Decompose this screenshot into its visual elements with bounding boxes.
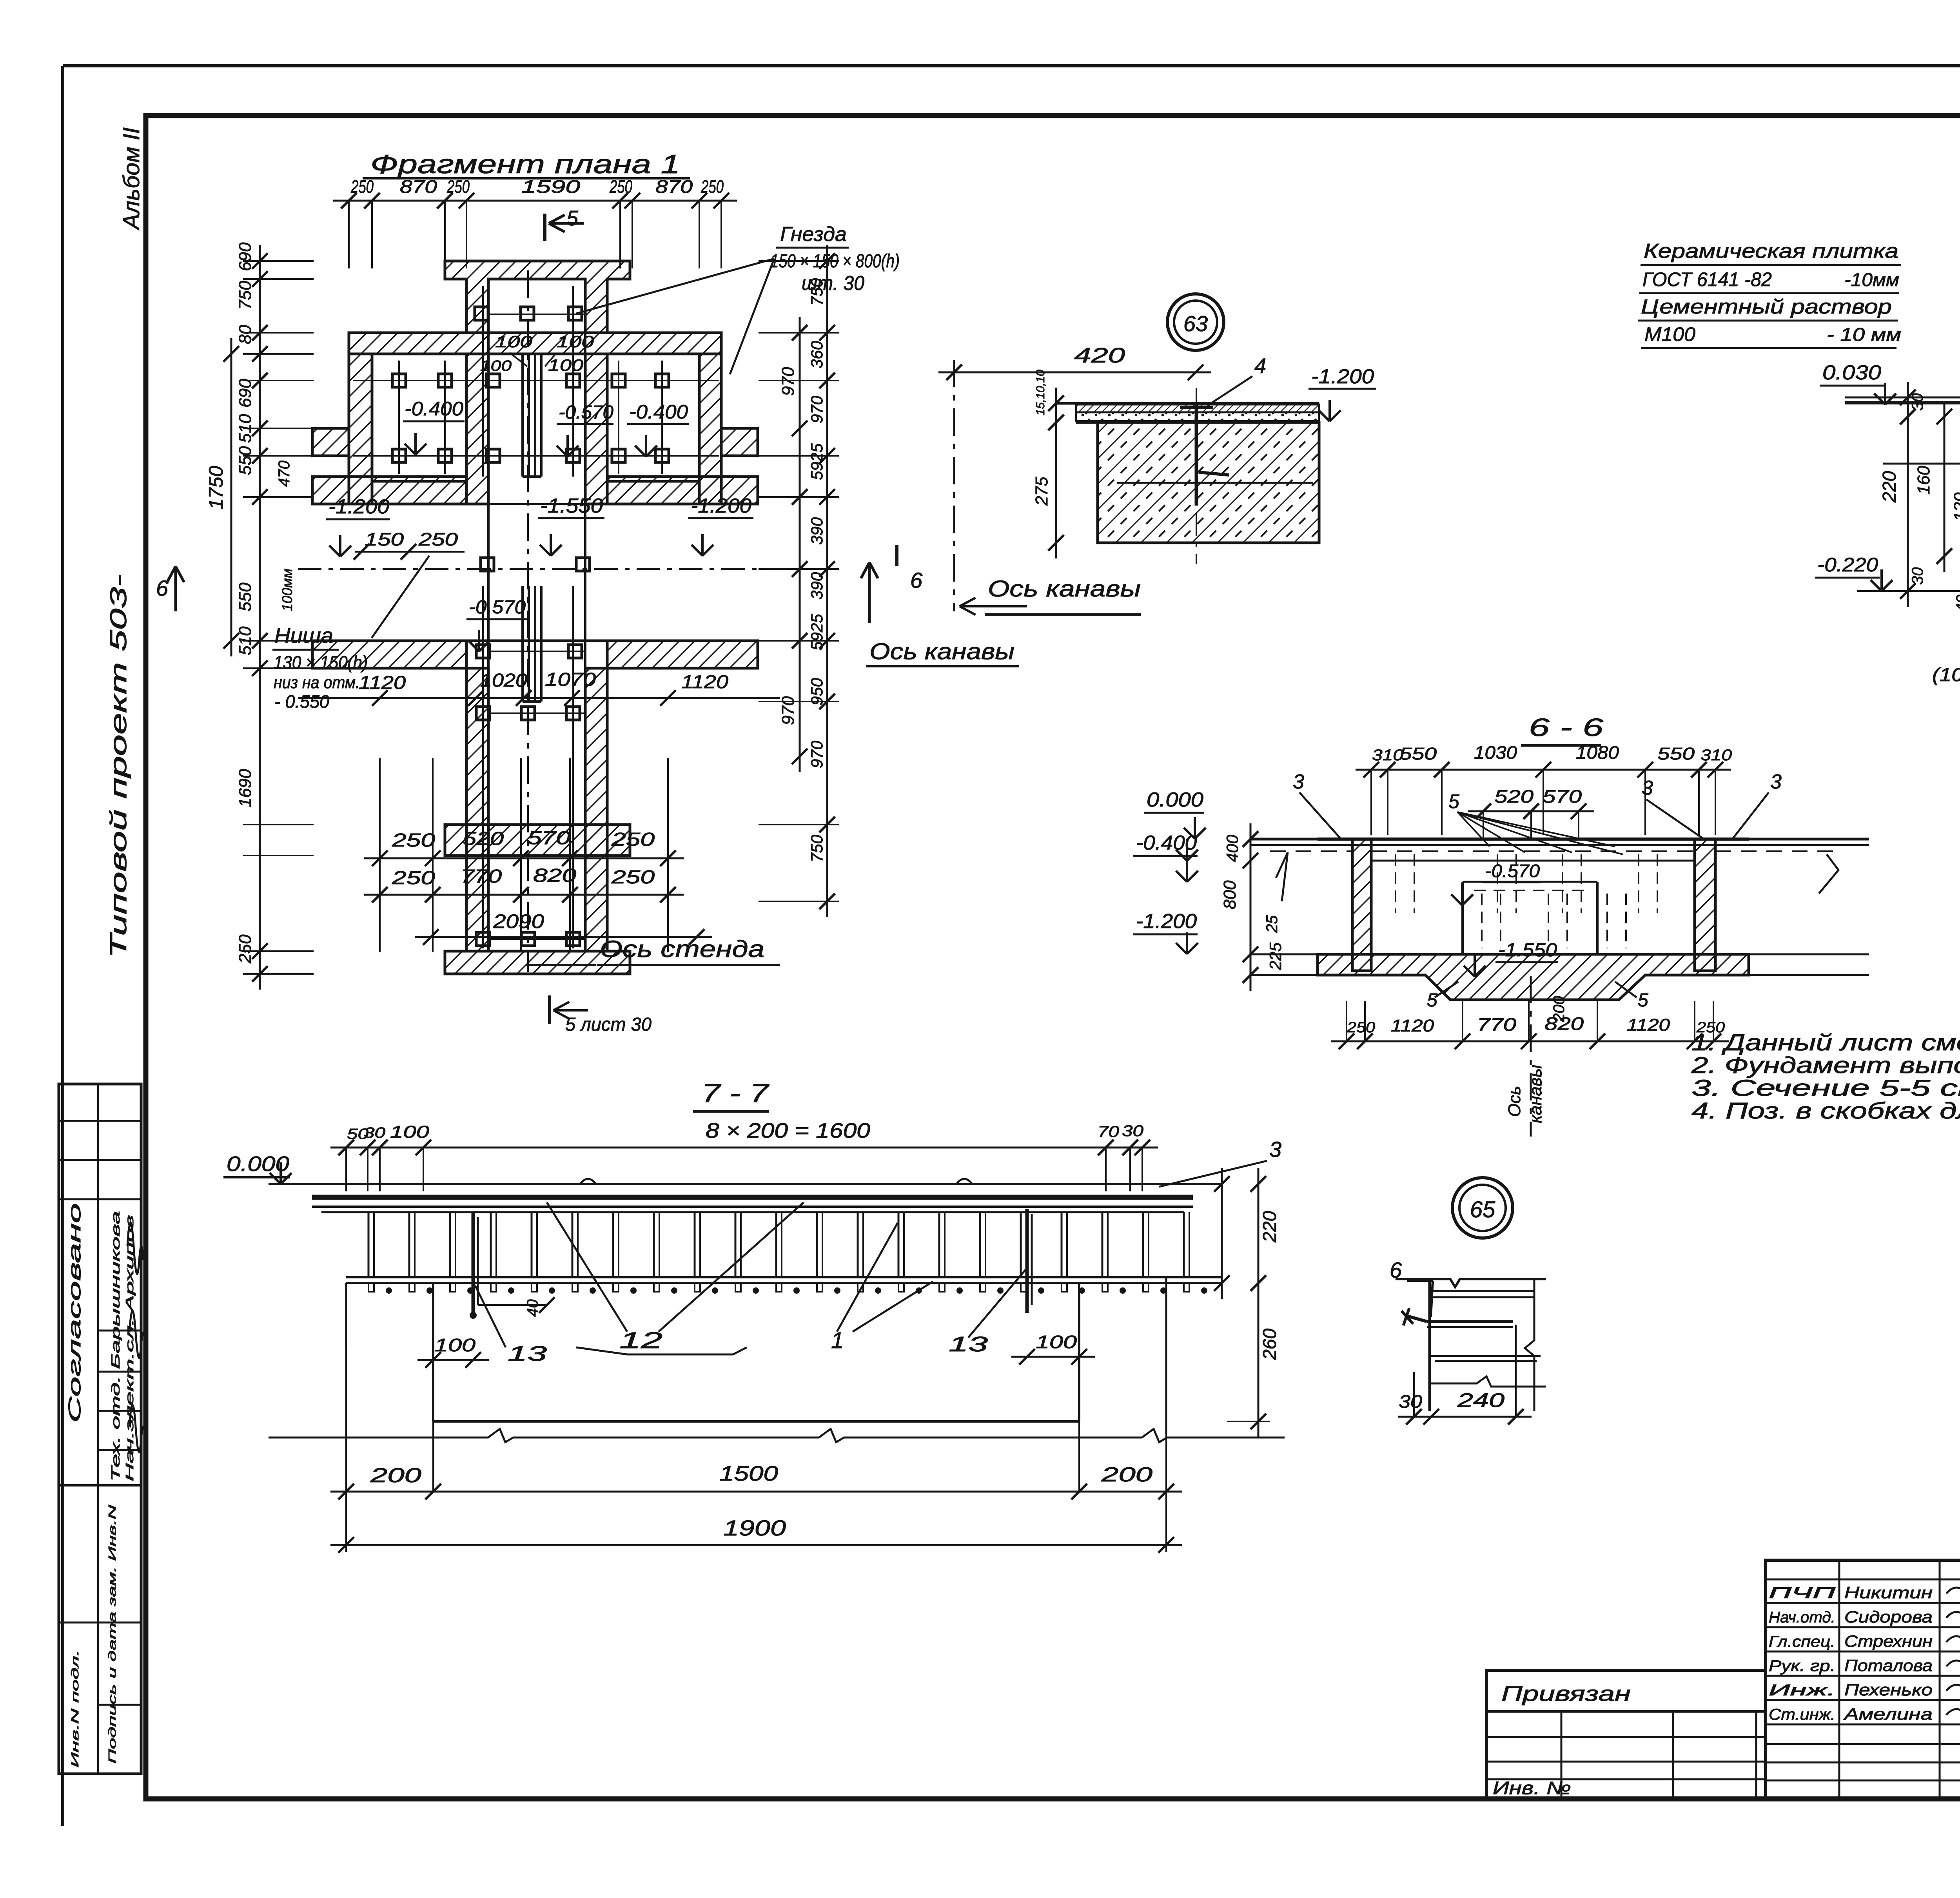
svg-text:1120: 1120 — [1627, 1015, 1670, 1035]
svg-text:6: 6 — [910, 568, 923, 593]
svg-text:390: 390 — [808, 572, 826, 600]
svg-text:65: 65 — [1470, 1197, 1495, 1222]
plan construction grid lines — [353, 270, 719, 972]
svg-text:240: 240 — [1457, 1389, 1505, 1411]
svg-text:250: 250 — [611, 867, 655, 888]
svg-text:1120: 1120 — [1391, 1016, 1434, 1035]
svg-text:Керамическая плитка: Керамическая плитка — [1644, 240, 1898, 263]
svg-text:250: 250 — [418, 529, 458, 549]
svg-text:3. Сечение 5-5 см. лист 30: 3. Сечение 5-5 см. лист 30. — [1691, 1075, 1960, 1101]
svg-text:Амелина: Амелина — [1843, 1705, 1933, 1723]
svg-text:1590: 1590 — [521, 176, 581, 197]
plan right vertical dim chain — [779, 245, 835, 917]
svg-text:80: 80 — [236, 325, 255, 344]
plan left vertical dim chain — [205, 242, 295, 990]
plan os kanavy right label — [861, 545, 1019, 666]
svg-text:(10)13: (10)13 — [1932, 665, 1960, 685]
svg-text:260: 260 — [1259, 1329, 1280, 1360]
svg-text:Привязан: Привязан — [1501, 1682, 1631, 1706]
svg-text:Цементный раствор: Цементный раствор — [1641, 295, 1892, 318]
svg-text:550: 550 — [236, 582, 255, 611]
plan os stenda label — [526, 936, 780, 973]
svg-text:970: 970 — [779, 696, 798, 725]
svg-text:1070: 1070 — [545, 669, 596, 690]
svg-text:5: 5 — [566, 207, 579, 230]
svg-text:-0.570: -0.570 — [559, 402, 613, 423]
svg-text:Сидорова: Сидорова — [1844, 1608, 1933, 1626]
svg-text:-0.570: -0.570 — [469, 597, 526, 618]
svg-text:Инж.: Инж. — [1769, 1682, 1835, 1699]
svg-text:-1.550: -1.550 — [540, 495, 603, 517]
svg-text:970: 970 — [808, 395, 826, 423]
svg-text:970: 970 — [808, 740, 826, 768]
svg-text:310: 310 — [1700, 747, 1732, 764]
section 7-7 stirrups — [368, 1212, 1189, 1277]
svg-text:550: 550 — [236, 446, 255, 475]
svg-text:160: 160 — [1914, 466, 1933, 495]
svg-text:30: 30 — [364, 1125, 385, 1141]
svg-text:15,10,10: 15,10,10 — [1034, 370, 1047, 415]
section 6-6 drawing — [1133, 742, 1869, 1137]
svg-text:Ось канавы: Ось канавы — [988, 576, 1141, 602]
svg-text:690: 690 — [236, 242, 255, 271]
svg-text:Согласовано: Согласовано — [65, 1203, 84, 1423]
svg-text:Нач.элект.сл. Архипов: Нач.элект.сл. Архипов — [123, 1215, 136, 1481]
svg-text:4. Поз. в скобках для фунд: 4. Поз. в скобках для фундаментов Ф06, Ф… — [1691, 1098, 1960, 1124]
plan dimension extension lines — [243, 261, 839, 974]
plan top dimension chain 250-870-250-1590-250-870-250 — [333, 176, 737, 268]
svg-text:3: 3 — [1293, 770, 1304, 793]
svg-text:30: 30 — [1909, 567, 1926, 585]
svg-text:520: 520 — [1494, 786, 1534, 807]
svg-text:2. Фундамент выполнить по п: 2. Фундамент выполнить по получении обор… — [1691, 1053, 1960, 1078]
plan bottom dim chains — [364, 828, 712, 945]
svg-text:13: 13 — [508, 1342, 547, 1365]
svg-text:750: 750 — [236, 281, 255, 310]
svg-text:-1.200: -1.200 — [328, 495, 389, 518]
svg-text:6 - 6: 6 - 6 — [1529, 713, 1604, 741]
svg-text:3: 3 — [1770, 770, 1782, 793]
svg-text:0.030: 0.030 — [1822, 361, 1881, 384]
svg-text:Ст.инж.: Ст.инж. — [1769, 1706, 1835, 1723]
plan section mark 6 left — [156, 566, 184, 611]
section 7-7 leaders and labels — [269, 1168, 1285, 1553]
svg-text:Типовой проект 503-: Типовой проект 503- — [106, 574, 131, 958]
svg-text:250: 250 — [611, 829, 655, 850]
plan title Fragment plana 1 — [363, 149, 690, 179]
svg-text:-0.400: -0.400 — [405, 398, 463, 420]
svg-text:5925: 5925 — [808, 443, 826, 480]
svg-text:5: 5 — [1427, 990, 1437, 1011]
svg-text:Нач.отд.: Нач.отд. — [1769, 1609, 1835, 1626]
svg-text:770: 770 — [461, 866, 502, 887]
svg-text:Альбом II: Альбом II — [119, 127, 144, 230]
node 63 detail drawing — [938, 344, 1376, 611]
svg-text:250: 250 — [446, 176, 470, 197]
svg-text:-1.200: -1.200 — [691, 495, 751, 517]
title block personnel table — [1766, 1560, 1960, 1798]
svg-text:-1.200: -1.200 — [1136, 910, 1197, 933]
svg-text:100: 100 — [390, 1122, 430, 1142]
svg-text:250: 250 — [701, 176, 724, 197]
svg-text:Фрагмент плана 1: Фрагмент плана 1 — [370, 149, 680, 179]
svg-text:ПЧП: ПЧП — [1769, 1584, 1836, 1602]
svg-text:М100: М100 — [1644, 323, 1695, 345]
node 63 os kanavy label — [960, 576, 1141, 615]
plan walls and hatched structure — [298, 261, 788, 974]
svg-text:Ось канавы: Ось канавы — [869, 639, 1014, 664]
svg-text:ГОСТ 6141 -82: ГОСТ 6141 -82 — [1642, 268, 1772, 290]
svg-text:4: 4 — [1254, 354, 1266, 378]
svg-text:Ось: Ось — [1505, 1086, 1524, 1117]
svg-text:390: 390 — [808, 517, 826, 545]
svg-text:30: 30 — [1909, 393, 1926, 411]
svg-text:7 - 7: 7 - 7 — [702, 1079, 769, 1108]
svg-text:520: 520 — [463, 828, 504, 849]
svg-text:-10мм: -10мм — [1844, 270, 1899, 290]
svg-text:310: 310 — [1372, 747, 1403, 764]
svg-text:200: 200 — [370, 1464, 422, 1487]
plan lower -0.570 elevation — [466, 597, 527, 651]
svg-text:1900: 1900 — [723, 1515, 786, 1540]
svg-text:- 0.550: - 0.550 — [274, 691, 329, 712]
title block pривязан table — [1486, 1670, 1766, 1798]
svg-text:3: 3 — [1642, 777, 1653, 799]
svg-text:Гл.спец.: Гл.спец. — [1769, 1633, 1835, 1650]
svg-text:2090: 2090 — [493, 910, 544, 932]
svg-text:570: 570 — [1543, 786, 1582, 807]
svg-text:Инв. №: Инв. № — [1493, 1778, 1571, 1798]
node 65 detail — [1390, 1258, 1546, 1425]
svg-text:100: 100 — [480, 358, 512, 374]
svg-text:800: 800 — [1220, 880, 1240, 909]
svg-text:100: 100 — [495, 332, 533, 351]
svg-text:Стрехнин: Стрехнин — [1844, 1632, 1933, 1650]
plan section mark 5 bottom — [550, 995, 652, 1035]
svg-text:Поталова: Поталова — [1844, 1656, 1933, 1675]
svg-text:130 × 150(h): 130 × 150(h) — [274, 652, 368, 673]
svg-text:1120: 1120 — [359, 673, 406, 693]
svg-text:Рук. гр.: Рук. гр. — [1769, 1657, 1835, 1675]
svg-text:40: 40 — [524, 1300, 541, 1317]
svg-text:63: 63 — [1183, 311, 1208, 336]
plan room outlines — [372, 279, 699, 951]
svg-text:Подпись и дата зам. Инв.N: Подпись и дата зам. Инв.N — [106, 1505, 118, 1764]
svg-text:Тех. отд. Барышникова: Тех. отд. Барышникова — [109, 1211, 122, 1481]
svg-text:550: 550 — [1657, 744, 1695, 763]
plan section mark 5 top — [545, 207, 584, 241]
svg-text:5: 5 — [1448, 790, 1459, 812]
plan lower internal dims 1120 1020 1070 1120 — [298, 669, 780, 706]
svg-text:100: 100 — [548, 356, 584, 374]
svg-text:250: 250 — [236, 934, 255, 964]
svg-text:6: 6 — [156, 576, 169, 600]
svg-text:250: 250 — [609, 176, 632, 197]
svg-text:30: 30 — [1399, 1391, 1422, 1412]
svg-text:5: 5 — [1638, 990, 1648, 1011]
svg-text:-0.400: -0.400 — [629, 401, 688, 423]
svg-text:220: 220 — [1259, 1211, 1280, 1243]
svg-text:низ на отм.: низ на отм. — [274, 673, 360, 692]
svg-text:470: 470 — [276, 460, 293, 487]
svg-text:750: 750 — [808, 834, 826, 862]
plan elevation labels -0.400 -0.570 — [403, 398, 689, 457]
svg-text:550: 550 — [1399, 744, 1437, 763]
plan nisha label — [272, 556, 429, 712]
svg-text:3: 3 — [1269, 1137, 1281, 1162]
svg-text:225: 225 — [1266, 942, 1285, 970]
svg-text:200: 200 — [1101, 1463, 1153, 1486]
section 7-7 long anchor bars — [470, 1209, 1032, 1319]
svg-text:100: 100 — [1036, 1332, 1077, 1352]
svg-text:30: 30 — [1122, 1122, 1143, 1140]
svg-text:5925: 5925 — [808, 614, 826, 651]
svg-text:8 × 200 = 1600: 8 × 200 = 1600 — [706, 1119, 870, 1142]
plan trench elevation labels -1.200 -1.550 — [326, 495, 753, 560]
svg-text:1750: 1750 — [205, 466, 227, 509]
svg-text:400: 400 — [1223, 834, 1241, 862]
svg-text:250: 250 — [350, 176, 374, 197]
svg-text:40: 40 — [1953, 595, 1960, 613]
section 7-7 title — [693, 1079, 769, 1111]
svg-text:-0.570: -0.570 — [1485, 861, 1540, 881]
svg-text:220: 220 — [1879, 471, 1900, 503]
svg-text:100: 100 — [434, 1335, 476, 1355]
svg-text:70: 70 — [1098, 1123, 1119, 1140]
svg-text:0.000: 0.000 — [1147, 789, 1203, 811]
notes list — [1691, 1030, 1960, 1124]
svg-text:120: 120 — [1951, 492, 1960, 521]
svg-text:570: 570 — [527, 828, 570, 848]
svg-text:420: 420 — [1074, 344, 1125, 367]
section 7-7 bottom chord — [346, 1277, 1222, 1294]
section 7-7 drawing — [223, 1119, 1281, 1212]
plan inner dimension labels 100 — [480, 332, 594, 374]
svg-text:Гнезда: Гнезда — [780, 223, 847, 246]
plan label Gnezda 150x150x800 — [576, 223, 900, 374]
svg-text:13: 13 — [949, 1332, 988, 1356]
svg-text:Пехенько: Пехенько — [1844, 1680, 1933, 1699]
left approval stamp table — [59, 1084, 145, 1774]
svg-text:690: 690 — [236, 379, 255, 408]
svg-text:200: 200 — [1550, 996, 1568, 1022]
svg-text:-0.220: -0.220 — [1817, 554, 1878, 576]
svg-text:250: 250 — [1347, 1019, 1375, 1036]
svg-text:970: 970 — [779, 367, 798, 396]
svg-text:1080: 1080 — [1576, 742, 1619, 763]
svg-text:Ось стенда: Ось стенда — [600, 936, 764, 962]
svg-text:1690: 1690 — [236, 769, 255, 807]
svg-text:100мм: 100мм — [279, 569, 295, 611]
svg-text:250: 250 — [392, 868, 436, 888]
svg-text:1030: 1030 — [1474, 742, 1517, 763]
svg-text:870: 870 — [400, 176, 437, 197]
svg-text:750: 750 — [808, 278, 826, 306]
node 65 circle — [1452, 1178, 1513, 1238]
section 6-6 title — [1521, 713, 1604, 745]
svg-text:275: 275 — [1032, 477, 1051, 506]
svg-text:1. Данный лист смотреть сов: 1. Данный лист смотреть совместно с лист… — [1691, 1030, 1960, 1055]
svg-text:1120: 1120 — [681, 672, 728, 692]
svg-text:870: 870 — [655, 176, 693, 197]
svg-text:150: 150 — [365, 529, 404, 549]
node 64 detail drawing — [1815, 292, 1960, 785]
svg-text:1020: 1020 — [480, 670, 527, 691]
svg-text:-1.200: -1.200 — [1311, 365, 1374, 388]
svg-text:1500: 1500 — [719, 1462, 778, 1485]
svg-text:Инв.N подл.: Инв.N подл. — [69, 1650, 81, 1767]
svg-text:25: 25 — [1263, 915, 1281, 933]
node 63 circle — [1167, 294, 1224, 350]
svg-text:12: 12 — [619, 1328, 662, 1353]
svg-text:250: 250 — [392, 830, 436, 851]
svg-text:канавы: канавы — [1526, 1065, 1545, 1123]
plan socket squares grid — [392, 307, 669, 946]
svg-text:Никитин: Никитин — [1844, 1583, 1933, 1602]
tile materials note — [1638, 240, 1901, 348]
svg-text:Ниша: Ниша — [274, 624, 333, 647]
svg-text:- 10 мм: - 10 мм — [1827, 324, 1901, 345]
svg-text:360: 360 — [808, 341, 826, 368]
svg-text:100: 100 — [557, 332, 594, 351]
svg-text:770: 770 — [1477, 1014, 1517, 1035]
svg-text:5 лист 30: 5 лист 30 — [565, 1014, 652, 1035]
